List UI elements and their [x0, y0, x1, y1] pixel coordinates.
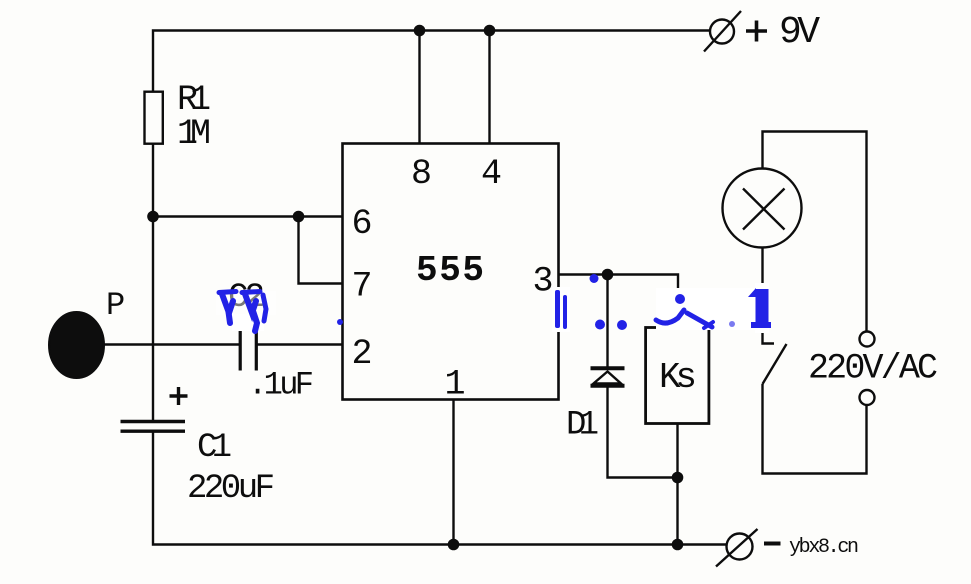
- node rail-pin4: [484, 25, 496, 37]
- capacitor C2: [240, 320, 256, 371]
- node D1/Ks bottom: [672, 472, 684, 484]
- svg-text:8: 8: [411, 154, 432, 194]
- wire D1 anode down and across: [608, 386, 679, 478]
- watermark blue fragments mid: [337, 274, 735, 330]
- wire R1 bottom to node A: [152, 144, 154, 345]
- watermark blue swoosh over Ks: [656, 310, 713, 328]
- resistor R1: [145, 92, 163, 144]
- node rail-Ks: [672, 539, 684, 551]
- wire lamp bottom to switch: [763, 248, 775, 344]
- wire mic to C2 left plate: [100, 343, 239, 345]
- wire pin4 to rail: [488, 31, 490, 144]
- diode D1: [591, 368, 625, 385]
- wire pin6 from node: [153, 215, 343, 217]
- watermark blue numeral 1: [748, 288, 771, 328]
- wire pin7 stub: [299, 217, 343, 284]
- microphone P: [49, 312, 104, 378]
- wire pin1 to ground rail: [452, 400, 454, 545]
- watermark blue fragment W1: [219, 292, 266, 332]
- relay Ks: [646, 328, 709, 424]
- wire lamp top bracket: [763, 132, 867, 332]
- wire switch to bottom loop: [763, 384, 867, 474]
- svg-text:ybx8.cn: ybx8.cn: [789, 536, 859, 559]
- svg-text:3: 3: [533, 262, 554, 302]
- wire Ks bottom to junction to rail: [676, 424, 678, 545]
- lamp: [723, 169, 802, 248]
- svg-text:C1: C1: [197, 429, 232, 467]
- terminal +9V: [710, 20, 734, 44]
- AC terminal upper: [860, 332, 875, 347]
- svg-text:220uF: 220uF: [187, 470, 275, 508]
- svg-text:.1uF: .1uF: [248, 367, 314, 404]
- label minus dash: [764, 542, 781, 546]
- node pin6/pin7: [293, 211, 305, 223]
- svg-text:555: 555: [416, 250, 484, 291]
- label +9V: [746, 21, 767, 42]
- node rail-pin8: [414, 25, 426, 37]
- node rail-pin1: [448, 539, 460, 551]
- watermark blue fragment W2: [242, 292, 260, 293]
- capacitor C1: [121, 422, 186, 432]
- terminal ground minus: [727, 534, 753, 560]
- node pin3/D1: [602, 269, 614, 281]
- svg-text:D1: D1: [566, 407, 599, 445]
- watermark white smear band: [216, 283, 769, 333]
- svg-text:2: 2: [352, 334, 373, 374]
- wire top supply rail: [153, 31, 710, 93]
- svg-text:9V: 9V: [779, 11, 820, 54]
- svg-text:4: 4: [481, 154, 502, 194]
- node A R1/pin6: [147, 211, 159, 223]
- wire node A down to C1 top: [152, 345, 154, 421]
- svg-text:P: P: [106, 287, 125, 324]
- wire C1 bottom to ground rail: [153, 433, 727, 545]
- AC terminal lower: [860, 390, 875, 405]
- wire pin3 node down to D1: [606, 275, 608, 368]
- capacitor C1 polarity plus: [170, 387, 188, 405]
- wire pin3 to relay: [559, 275, 679, 328]
- wire C2 right plate to pin2: [258, 343, 343, 345]
- IC 555 timer U1: [343, 144, 559, 400]
- wire pin8 to rail: [418, 31, 420, 144]
- svg-text:6: 6: [352, 204, 373, 244]
- svg-text:220V/AC: 220V/AC: [808, 349, 938, 389]
- switch S blade: [763, 344, 787, 384]
- svg-text:1M: 1M: [177, 114, 211, 154]
- svg-text:7: 7: [352, 267, 373, 307]
- svg-text:1: 1: [445, 365, 466, 405]
- svg-text:Ks: Ks: [659, 357, 697, 398]
